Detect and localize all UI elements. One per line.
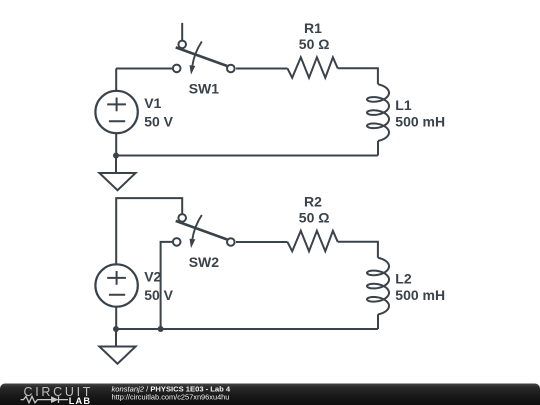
svg-text:SW1: SW1 — [189, 81, 220, 97]
svg-text:V2: V2 — [144, 269, 161, 285]
svg-text:50 Ω: 50 Ω — [299, 36, 330, 52]
svg-text:R2: R2 — [304, 194, 322, 210]
svg-text:50 V: 50 V — [144, 287, 173, 303]
svg-text:http://circuitlab.com/c257xn96: http://circuitlab.com/c257xn96xu4hu — [112, 393, 230, 402]
svg-text:500 mH: 500 mH — [395, 287, 445, 303]
svg-text:R1: R1 — [304, 20, 322, 36]
svg-text:SW2: SW2 — [189, 254, 220, 270]
svg-text:V1: V1 — [144, 95, 161, 111]
svg-text:L1: L1 — [395, 97, 412, 113]
svg-text:LAB: LAB — [69, 396, 91, 405]
svg-text:50 V: 50 V — [144, 114, 173, 130]
svg-text:L2: L2 — [395, 271, 412, 287]
svg-text:50 Ω: 50 Ω — [299, 210, 330, 226]
svg-text:500 mH: 500 mH — [395, 113, 445, 129]
